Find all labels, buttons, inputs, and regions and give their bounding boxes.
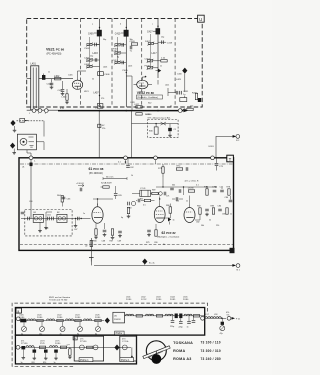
capacitor C431 series pair xyxy=(174,91,189,96)
wire antenna down to IF box xyxy=(27,150,31,156)
svg-text:1n: 1n xyxy=(187,327,189,329)
svg-text:R430: R430 xyxy=(192,93,198,95)
pentode 62b envelope xyxy=(184,204,195,223)
svg-text:C430: C430 xyxy=(177,74,182,76)
row1 R coil3 xyxy=(165,314,173,316)
svg-text:30.5 mm: 30.5 mm xyxy=(106,176,114,178)
wire VE21 anode up xyxy=(78,71,87,80)
corner marker (bottom-right of IF box) xyxy=(230,248,235,253)
svg-text:L403: L403 xyxy=(93,53,99,55)
padder P402 xyxy=(85,43,100,51)
corner marker T (top-right of IF box) xyxy=(227,155,234,162)
capacitor C413 xyxy=(113,60,127,64)
svg-text:3k: 3k xyxy=(163,244,165,246)
svg-text:47p: 47p xyxy=(220,333,223,335)
wire from IF box output down xyxy=(90,262,92,266)
capacitor C407 xyxy=(84,58,100,62)
left edge parts of IF box xyxy=(21,212,25,214)
resistor R430 xyxy=(192,93,201,103)
grounds in FM sub-box xyxy=(38,219,48,233)
svg-text:6.3V: 6.3V xyxy=(60,108,65,110)
antenna input socket W1 xyxy=(17,134,36,150)
svg-text:L401: L401 xyxy=(31,63,37,66)
row2 coil 2 xyxy=(50,346,58,348)
svg-text:1n: 1n xyxy=(21,362,23,364)
filter can B1 xyxy=(33,212,43,222)
svg-text:C409: C409 xyxy=(88,33,94,35)
svg-text:C404: C404 xyxy=(58,90,64,92)
row1 R coil1 xyxy=(126,314,134,316)
bottom rail of tuner box components xyxy=(180,108,193,111)
RC pair right of R71 xyxy=(176,166,188,171)
capacitor C412 xyxy=(113,51,127,55)
row1 left input terminal xyxy=(16,317,20,321)
node diamond AM aerial xyxy=(10,120,15,126)
row2 cap drop 4 xyxy=(54,350,58,365)
triode-pentode 62a envelope xyxy=(154,204,165,223)
resistor R402 xyxy=(54,75,61,80)
capacitor C404 xyxy=(58,81,65,95)
junction dot AM filter xyxy=(155,123,156,124)
misc tiny value labels tuner box xyxy=(29,24,193,115)
row2 rect 1 xyxy=(39,346,45,348)
sub-box B tag PGFw1 xyxy=(120,358,134,362)
svg-text:C60: C60 xyxy=(29,201,32,203)
row1 L coil3 xyxy=(66,319,74,321)
svg-text:L413: L413 xyxy=(128,66,132,68)
svg-text:61 PCC 88: 61 PCC 88 xyxy=(89,167,104,171)
svg-text:P407: P407 xyxy=(145,41,151,43)
ext coil2 xyxy=(213,314,221,319)
svg-text:C62: C62 xyxy=(130,167,135,169)
svg-text:a: a xyxy=(17,309,19,313)
sub-box A label xyxy=(80,339,87,344)
parts row x168-198 xyxy=(170,187,195,195)
svg-text:120/40: 120/40 xyxy=(188,188,195,190)
oscillator column A wire xyxy=(99,19,101,107)
svg-text:P4.80: P4.80 xyxy=(183,299,189,301)
bandfilter terminals below tuner box xyxy=(27,109,58,113)
svg-text:N 1: N 1 xyxy=(237,270,241,272)
coupling caps between cans xyxy=(47,215,53,221)
switch box U5 PGFW xyxy=(113,312,125,323)
svg-text:S42: S42 xyxy=(148,103,151,105)
FM frontend dashed sub-box xyxy=(25,210,72,236)
resistor R403 cathode chain xyxy=(62,89,69,104)
connector marker U4 (top-right of tuner box) xyxy=(198,15,205,22)
voltage divider tap on column A xyxy=(98,111,107,158)
svg-text:3: 3 xyxy=(45,113,46,115)
svg-text:PGFw 1: PGFw 1 xyxy=(121,359,130,362)
row1 L group2 xyxy=(37,319,45,335)
row1 L group4 xyxy=(75,319,83,335)
row2 wire xyxy=(18,346,131,348)
svg-text:C410: C410 xyxy=(115,33,121,35)
svg-text:220p: 220p xyxy=(179,327,183,329)
output wire to N2 terminal xyxy=(216,135,240,158)
svg-text:C85: C85 xyxy=(222,214,225,216)
coil L403a xyxy=(93,53,99,55)
heater supply bus (thick) xyxy=(58,110,183,112)
IF terminal 3 xyxy=(154,156,158,160)
svg-text:5k: 5k xyxy=(209,220,211,222)
svg-text:C413: C413 xyxy=(113,60,119,62)
svg-text:C419: C419 xyxy=(145,58,151,60)
svg-text:L405: L405 xyxy=(103,67,107,69)
resistor R73 top row xyxy=(141,199,155,201)
group labels row1 left xyxy=(19,315,101,320)
svg-text:R440: R440 xyxy=(145,114,151,116)
svg-text:L57: L57 xyxy=(206,314,210,316)
top chain from terminal U1 xyxy=(30,160,37,219)
svg-text:62 PCF 82: 62 PCF 82 xyxy=(162,231,177,235)
note text above filter unit xyxy=(49,296,71,302)
svg-text:C428: C428 xyxy=(130,102,135,104)
filter unit row2 enclosure xyxy=(15,335,136,364)
svg-text:820: 820 xyxy=(32,362,35,364)
svg-text:R62: R62 xyxy=(45,228,48,230)
row2 cap drop 3 xyxy=(43,350,48,365)
svg-text:C427: C427 xyxy=(134,104,140,106)
svg-text:(PC 400/410): (PC 400/410) xyxy=(89,173,103,175)
discriminator parts x152-163 xyxy=(152,192,166,196)
svg-text:570: 570 xyxy=(101,98,104,100)
bus end arrow xyxy=(183,109,188,112)
bandfilter can B30 xyxy=(149,124,158,135)
wire IF mid rail xyxy=(46,160,222,222)
ext terminal with arrow xyxy=(227,316,241,320)
B+ distribution wire xyxy=(94,264,235,266)
coil L407 xyxy=(94,93,101,97)
svg-text:5%: 5% xyxy=(227,315,230,317)
svg-text:R72: R72 xyxy=(177,166,182,168)
sub-box B outline xyxy=(120,336,137,361)
coil labels above filter unit right xyxy=(126,297,189,302)
svg-text:R66: R66 xyxy=(93,241,98,243)
svg-text:L407: L407 xyxy=(94,93,100,95)
svg-text:U1: U1 xyxy=(22,167,24,169)
svg-text:C84: C84 xyxy=(218,206,223,208)
row2 rect 2 xyxy=(60,346,66,348)
svg-text:1n: 1n xyxy=(230,214,232,216)
svg-text:15p: 15p xyxy=(161,37,164,39)
row1 R coil4 xyxy=(184,314,192,316)
column A chain link xyxy=(89,37,91,67)
parts row x205-232 xyxy=(204,187,231,196)
wire BF1 to VE21 grid xyxy=(39,78,73,80)
svg-text:C67: C67 xyxy=(74,229,77,231)
svg-text:L429: L429 xyxy=(176,79,182,81)
svg-text:5k: 5k xyxy=(92,79,94,81)
svg-text:C403: C403 xyxy=(47,84,53,86)
svg-text:P4.80: P4.80 xyxy=(95,317,101,319)
corner marker a (top-left of filter unit) xyxy=(16,308,21,313)
svg-text:1n: 1n xyxy=(48,72,50,74)
svg-text:B30: B30 xyxy=(149,131,154,133)
node diamond FM aerial xyxy=(10,143,15,149)
svg-text:B2: B2 xyxy=(57,212,60,214)
svg-text:R69: R69 xyxy=(152,190,155,192)
ext coil1 xyxy=(205,314,213,319)
ext junction + hanging trimmer xyxy=(220,318,225,335)
row1 L group3 xyxy=(57,319,65,335)
wire antenna to FM tuner terminal xyxy=(36,142,44,150)
row2 labels xyxy=(21,341,61,346)
svg-text:C66: C66 xyxy=(67,199,72,201)
anode parts below tube 61a xyxy=(102,223,107,243)
trimmer C406 xyxy=(98,72,111,76)
svg-text:B61: B61 xyxy=(140,199,143,201)
row2 coil 1 xyxy=(26,346,34,348)
coil L429 xyxy=(176,79,182,81)
IF input terminal U1 xyxy=(29,156,33,160)
vertical resistor R71 xyxy=(158,164,164,177)
svg-text:P4.80: P4.80 xyxy=(55,343,61,345)
svg-text:220: 220 xyxy=(216,225,219,227)
svg-text:73 100 / 110: 73 100 / 110 xyxy=(201,341,221,345)
svg-text:P579: P579 xyxy=(40,343,46,345)
model list TOSKANA xyxy=(173,341,221,345)
svg-text:C69: C69 xyxy=(118,241,123,243)
svg-text:T: T xyxy=(229,157,232,162)
svg-text:30k: 30k xyxy=(172,185,175,187)
svg-text:C71: C71 xyxy=(166,196,169,198)
column C chain link xyxy=(149,34,151,68)
svg-text:C406: C406 xyxy=(104,74,110,76)
svg-text:U5: U5 xyxy=(114,316,118,318)
svg-text:42 k = Ortsk. R: 42 k = Ortsk. R xyxy=(185,180,199,183)
padder P408 xyxy=(145,65,159,69)
PGFw tag on divider xyxy=(115,331,124,335)
coil L417 xyxy=(152,53,158,55)
sub-box A tag PGFw1 xyxy=(79,358,93,362)
svg-text:P405: P405 xyxy=(123,70,129,72)
padder P404 xyxy=(113,43,126,51)
diamond between sub-boxes xyxy=(114,345,119,351)
svg-text:C68: C68 xyxy=(102,241,107,243)
svg-text:P408: P408 xyxy=(145,65,151,67)
resistor R64 above FM box xyxy=(57,195,64,207)
triode VE22 envelope xyxy=(134,80,148,89)
padder P407 xyxy=(145,41,158,45)
svg-text:P4.85: P4.85 xyxy=(170,299,176,301)
svg-text:P4.80: P4.80 xyxy=(156,299,162,301)
tube 62 label xyxy=(158,231,180,239)
node diamond row1 xyxy=(105,318,110,324)
terminal N1 xyxy=(232,264,240,272)
resistor + ground before sub-box A xyxy=(67,345,72,359)
svg-text:P4.80: P4.80 xyxy=(126,299,132,301)
svg-text:0.5: 0.5 xyxy=(143,205,146,207)
svg-text:220p: 220p xyxy=(170,326,174,328)
sub-box B label xyxy=(122,339,128,344)
svg-text:ROMA A3: ROMA A3 xyxy=(173,357,191,361)
svg-text:17k: 17k xyxy=(102,128,106,130)
resistor C426 group left of divider3 xyxy=(130,41,138,53)
row2 input terminal xyxy=(16,345,20,349)
svg-text:597 = Anpassung an Ant.: 597 = Anpassung an Ant. xyxy=(148,116,172,119)
svg-text:P402: P402 xyxy=(85,48,91,50)
svg-text:1n: 1n xyxy=(160,66,162,68)
junction dots IF box xyxy=(97,161,217,200)
svg-text:1n: 1n xyxy=(54,362,56,364)
svg-text:R83: R83 xyxy=(211,206,216,208)
capacitor C66 under text xyxy=(62,197,71,200)
svg-text:4p: 4p xyxy=(121,217,123,219)
svg-text:B+ 4s: B+ 4s xyxy=(149,263,156,265)
svg-text:C80: C80 xyxy=(154,242,157,244)
capacitor C70 top row xyxy=(136,199,140,203)
wire column C feed xyxy=(96,45,132,111)
row1 R coil2 xyxy=(146,314,154,316)
svg-text:L417: L417 xyxy=(152,53,158,55)
tuner section divider 4 xyxy=(174,19,176,108)
column B chain link xyxy=(117,37,119,63)
svg-text:PGFw 1: PGFw 1 xyxy=(80,359,89,362)
bus terminal circle xyxy=(178,109,182,113)
svg-text:R67: R67 xyxy=(110,241,115,243)
junction dots on bus xyxy=(99,110,159,112)
Blaupunkt logo ring xyxy=(143,341,170,364)
svg-text:17?: 17? xyxy=(67,345,70,347)
IF transformer B61 xyxy=(140,188,151,197)
filter unit dashed frame xyxy=(12,303,207,366)
IF terminal 4 xyxy=(211,156,215,160)
row1 L coil4 xyxy=(84,319,92,321)
svg-text:C86: C86 xyxy=(225,197,230,199)
wire VE22 anode to mixer output xyxy=(142,77,185,98)
row1 R terminal on edge xyxy=(201,316,205,320)
mid column parts x127-137 xyxy=(127,201,136,218)
wire through AM bandfilter xyxy=(132,123,179,125)
diode D401 xyxy=(42,74,45,80)
svg-text:73 300 / 310: 73 300 / 310 xyxy=(201,349,221,353)
ground below AM diamond xyxy=(13,126,17,132)
IF amplifier enclosure xyxy=(19,158,234,251)
row1 L group5 xyxy=(95,319,101,335)
capacitor C419 pair xyxy=(145,58,159,62)
parts right of tube 62b xyxy=(197,206,228,216)
svg-text:C412: C412 xyxy=(113,51,119,53)
svg-text:PGFW: PGFW xyxy=(114,319,121,321)
svg-text:C82: C82 xyxy=(196,222,199,224)
svg-text:820: 820 xyxy=(43,362,46,364)
model list ROMA A3 xyxy=(173,357,221,361)
ground bus dashed inside IF box xyxy=(20,244,233,246)
ground below FM diamond xyxy=(12,149,16,155)
svg-text:0.1: 0.1 xyxy=(196,185,199,187)
crossed wire symbol xyxy=(161,122,167,125)
row1 R rect1 xyxy=(136,315,142,317)
junction caps before tube xyxy=(74,217,82,228)
row2 cap drop 1 xyxy=(21,346,26,364)
row1 L coil1 xyxy=(28,319,36,321)
svg-text:VE21 PC 86: VE21 PC 86 xyxy=(46,48,64,52)
top rail caps near left xyxy=(126,158,134,169)
marker box on divider xyxy=(73,336,77,340)
svg-text:P4.80: P4.80 xyxy=(37,317,43,319)
resistor between tubes R80 xyxy=(166,204,172,214)
svg-text:TL: TL xyxy=(130,51,133,53)
resistor R67 below xyxy=(110,229,115,243)
node diamond B+ xyxy=(142,259,155,266)
AGC dash-dot line xyxy=(20,163,233,165)
capacitor C418 xyxy=(158,40,173,44)
misc tiny value labels IF box xyxy=(22,162,232,248)
capacitor C65 xyxy=(114,186,123,199)
tuner unit dashed enclosure xyxy=(27,19,203,108)
svg-text:C408: C408 xyxy=(84,64,90,66)
svg-text:R82: R82 xyxy=(197,206,202,208)
sub-box B contents xyxy=(122,345,132,357)
oscillator column B wire xyxy=(125,19,127,107)
svg-text:1: 1 xyxy=(29,113,30,115)
wire antenna feed into BF1 xyxy=(27,78,31,80)
annotation S21A cluster xyxy=(101,182,113,189)
tube 61 label xyxy=(89,167,104,175)
Blaupunkt logo dot xyxy=(155,351,157,356)
parts below tube 62a xyxy=(147,224,157,236)
tuner section divider 2 xyxy=(111,19,113,108)
svg-text:220: 220 xyxy=(190,106,193,108)
svg-text:L403: L403 xyxy=(62,97,68,99)
svg-text:N 2: N 2 xyxy=(236,140,240,142)
svg-text:6V: 6V xyxy=(102,125,105,127)
svg-text:C65: C65 xyxy=(118,195,123,197)
svg-text:C7.10k: C7.10k xyxy=(122,341,128,343)
svg-text:56k: 56k xyxy=(201,225,204,227)
svg-text:30p: 30p xyxy=(103,39,106,41)
svg-text:1n: 1n xyxy=(186,201,188,203)
junction node col C xyxy=(145,76,147,78)
svg-text:VE22 PC 88: VE22 PC 88 xyxy=(137,91,154,95)
svg-text:73 100 und 73 300: 73 100 und 73 300 xyxy=(49,300,68,302)
svg-text:1n: 1n xyxy=(170,106,172,108)
svg-text:30p: 30p xyxy=(130,39,133,41)
svg-text:P71.80: P71.80 xyxy=(21,343,28,345)
svg-text:ROMA: ROMA xyxy=(173,349,185,353)
row1 right wire xyxy=(125,315,205,317)
capacitor C74 top row xyxy=(172,197,183,201)
svg-text:B1: B1 xyxy=(34,212,37,214)
row1 R cap stack xyxy=(175,314,183,319)
svg-text:C61: C61 xyxy=(47,215,52,217)
filter box F42 xyxy=(180,98,187,102)
rail under 61 label xyxy=(103,176,127,180)
svg-text:D7.92: D7.92 xyxy=(141,299,147,301)
svg-text:L58: L58 xyxy=(214,314,218,316)
svg-text:(PC 400/410): (PC 400/410) xyxy=(47,52,62,55)
diode D419 xyxy=(156,69,162,73)
svg-text:0.1: 0.1 xyxy=(118,162,121,164)
external wire after row1 xyxy=(205,317,226,319)
row1 left wire xyxy=(19,320,105,322)
row1 L group1 xyxy=(20,319,26,336)
svg-text:P4.80: P4.80 xyxy=(75,317,81,319)
svg-text:P71.80: P71.80 xyxy=(80,341,87,343)
node diamond mixer out xyxy=(182,68,187,74)
svg-text:(Produkt + Oszillator): (Produkt + Oszillator) xyxy=(137,96,158,99)
svg-text:U: U xyxy=(199,17,202,22)
svg-text:R78: R78 xyxy=(227,187,232,189)
capacitor C408 xyxy=(84,64,100,68)
triode 61a envelope xyxy=(92,204,103,224)
svg-text:22k: 22k xyxy=(176,201,179,203)
svg-text:a: a xyxy=(92,24,94,26)
svg-text:C7.41: C7.41 xyxy=(140,188,146,190)
row1 R rect2 xyxy=(156,315,162,317)
svg-text:570: 570 xyxy=(95,108,98,110)
